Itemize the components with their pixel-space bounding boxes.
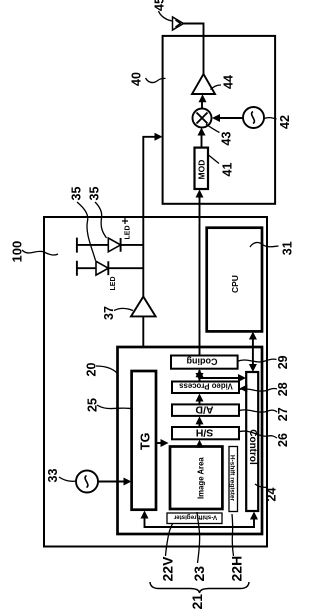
leader 22V <box>166 524 173 557</box>
arrows Video Process / Coding junction to Control <box>200 370 244 381</box>
label 23 <box>191 566 207 582</box>
amplifier 37 <box>131 297 156 317</box>
label 20 <box>85 363 99 377</box>
label 42 <box>278 115 292 129</box>
A/D box 27 <box>172 404 239 416</box>
svg-text:37: 37 <box>102 306 116 320</box>
wire amp 37 output to box 40 <box>143 137 160 297</box>
svg-text:35: 35 <box>88 187 102 201</box>
arrow TG to readout blocks <box>156 442 162 444</box>
svg-text:S/H: S/H <box>196 426 214 438</box>
wire coding to MOD <box>199 192 201 356</box>
label 41 <box>221 163 235 177</box>
Video Process box 28 <box>172 382 239 394</box>
wire Control to TG (bottom) <box>145 513 255 527</box>
leader 100 <box>22 250 58 255</box>
leader 23 <box>197 512 200 563</box>
svg-text:22V: 22V <box>160 556 176 582</box>
Control box 24 <box>246 372 258 511</box>
LED diode 1 <box>77 238 108 253</box>
svg-text:31: 31 <box>281 241 294 255</box>
modulator MOD 41 <box>195 148 209 189</box>
svg-text:TG: TG <box>139 433 153 450</box>
leader 44 <box>211 85 222 90</box>
label 27 <box>276 407 290 421</box>
box 40 <box>163 36 276 204</box>
label 29 <box>276 355 290 369</box>
arrow Control to Video Process <box>242 388 246 390</box>
svg-text:28: 28 <box>276 382 290 396</box>
leader 22H <box>232 514 234 556</box>
Image Area box 23 <box>170 447 222 510</box>
label 35 (second) <box>88 187 102 201</box>
label 26 <box>276 433 290 447</box>
label 40 <box>130 72 144 86</box>
mixer 43 <box>193 109 212 128</box>
svg-text:24: 24 <box>265 488 279 502</box>
arrow A/D to Video Process <box>199 401 201 405</box>
H-shift register 22H <box>229 447 238 512</box>
label 22V <box>160 556 176 582</box>
arrow S/H to A/D <box>199 423 201 427</box>
label 45 <box>153 0 167 11</box>
leader 45 <box>159 11 173 21</box>
label 24 <box>265 488 279 502</box>
leader 35 second <box>95 202 107 238</box>
leader 28 <box>238 388 277 391</box>
svg-text:45: 45 <box>153 0 167 11</box>
svg-text:Image Area: Image Area <box>197 457 206 499</box>
svg-text:A/D: A/D <box>195 403 214 415</box>
svg-text:21: 21 <box>189 594 205 609</box>
leader 27 <box>238 410 277 412</box>
svg-text:H-shift register: H-shift register <box>229 455 236 502</box>
label 21 <box>189 594 205 609</box>
leader 37 <box>114 308 133 310</box>
wire CPU to Control <box>252 334 254 369</box>
wire oscillator 33 to TG <box>98 481 129 483</box>
svg-text:26: 26 <box>276 433 290 447</box>
svg-text:42: 42 <box>278 115 292 129</box>
svg-text:41: 41 <box>221 163 235 177</box>
leader 41 <box>208 155 219 164</box>
leader 24 <box>255 484 267 488</box>
label 33 <box>46 469 60 483</box>
leader 40 <box>146 78 166 83</box>
label 25 <box>86 398 100 412</box>
label 37 <box>102 306 116 320</box>
leader 33 <box>59 477 76 481</box>
svg-text:100: 100 <box>10 241 25 263</box>
svg-text:44: 44 <box>222 75 236 89</box>
CPU box 31 <box>207 228 262 332</box>
wire amp 37 input <box>142 316 144 347</box>
svg-text:LED: LED <box>110 277 117 291</box>
svg-text:27: 27 <box>276 407 290 421</box>
leader 20 <box>96 366 117 373</box>
amplifier 44 <box>192 74 215 94</box>
V-shift register 22V <box>167 513 222 524</box>
label 43 <box>220 132 234 146</box>
leader 31 <box>250 242 279 247</box>
svg-text:CPU: CPU <box>230 275 240 293</box>
Coding box 29 <box>171 356 238 369</box>
TG box 25 <box>132 371 156 510</box>
LED diode 2 <box>77 261 96 276</box>
leader 42 <box>264 118 277 119</box>
label 28 <box>276 382 290 396</box>
oscillator 42 <box>243 107 264 128</box>
antenna 45 <box>173 17 184 30</box>
outer box 100 <box>44 217 267 547</box>
svg-text:Video Process: Video Process <box>179 381 233 390</box>
leader 29 <box>237 359 277 362</box>
svg-text:23: 23 <box>191 566 207 582</box>
leader 35 first <box>77 202 96 261</box>
wire MOD to mixer <box>201 130 203 148</box>
label 31 <box>281 241 295 255</box>
svg-text:40: 40 <box>130 72 144 86</box>
svg-text:43: 43 <box>220 132 234 146</box>
label 44 <box>222 75 236 89</box>
svg-text:35: 35 <box>70 187 84 201</box>
wire antenna to box 40 <box>184 24 204 75</box>
svg-text:22H: 22H <box>229 556 245 582</box>
arrow Image Area to S/H <box>199 444 201 447</box>
wire mixer to amp 44 <box>201 100 203 109</box>
label 100 <box>10 241 25 263</box>
label 22H <box>229 556 245 582</box>
leader 43 <box>206 124 220 133</box>
S/H box 26 <box>172 427 239 439</box>
oscillator 33 <box>76 471 98 493</box>
stray plus mark <box>122 218 128 224</box>
leader 25 <box>97 405 133 409</box>
svg-text:V-shift register: V-shift register <box>173 514 217 521</box>
leader 26 <box>238 431 277 438</box>
svg-text:20: 20 <box>85 363 99 377</box>
label 35 (first) <box>70 187 84 201</box>
wire oscillator 42 to mixer <box>215 117 244 119</box>
svg-text:33: 33 <box>46 469 60 483</box>
brace 21 <box>150 582 249 593</box>
svg-text:LED: LED <box>125 226 132 240</box>
svg-text:MOD: MOD <box>197 160 207 180</box>
svg-text:Coding: Coding <box>187 357 218 367</box>
box 20 <box>118 347 263 534</box>
svg-text:29: 29 <box>276 355 290 369</box>
